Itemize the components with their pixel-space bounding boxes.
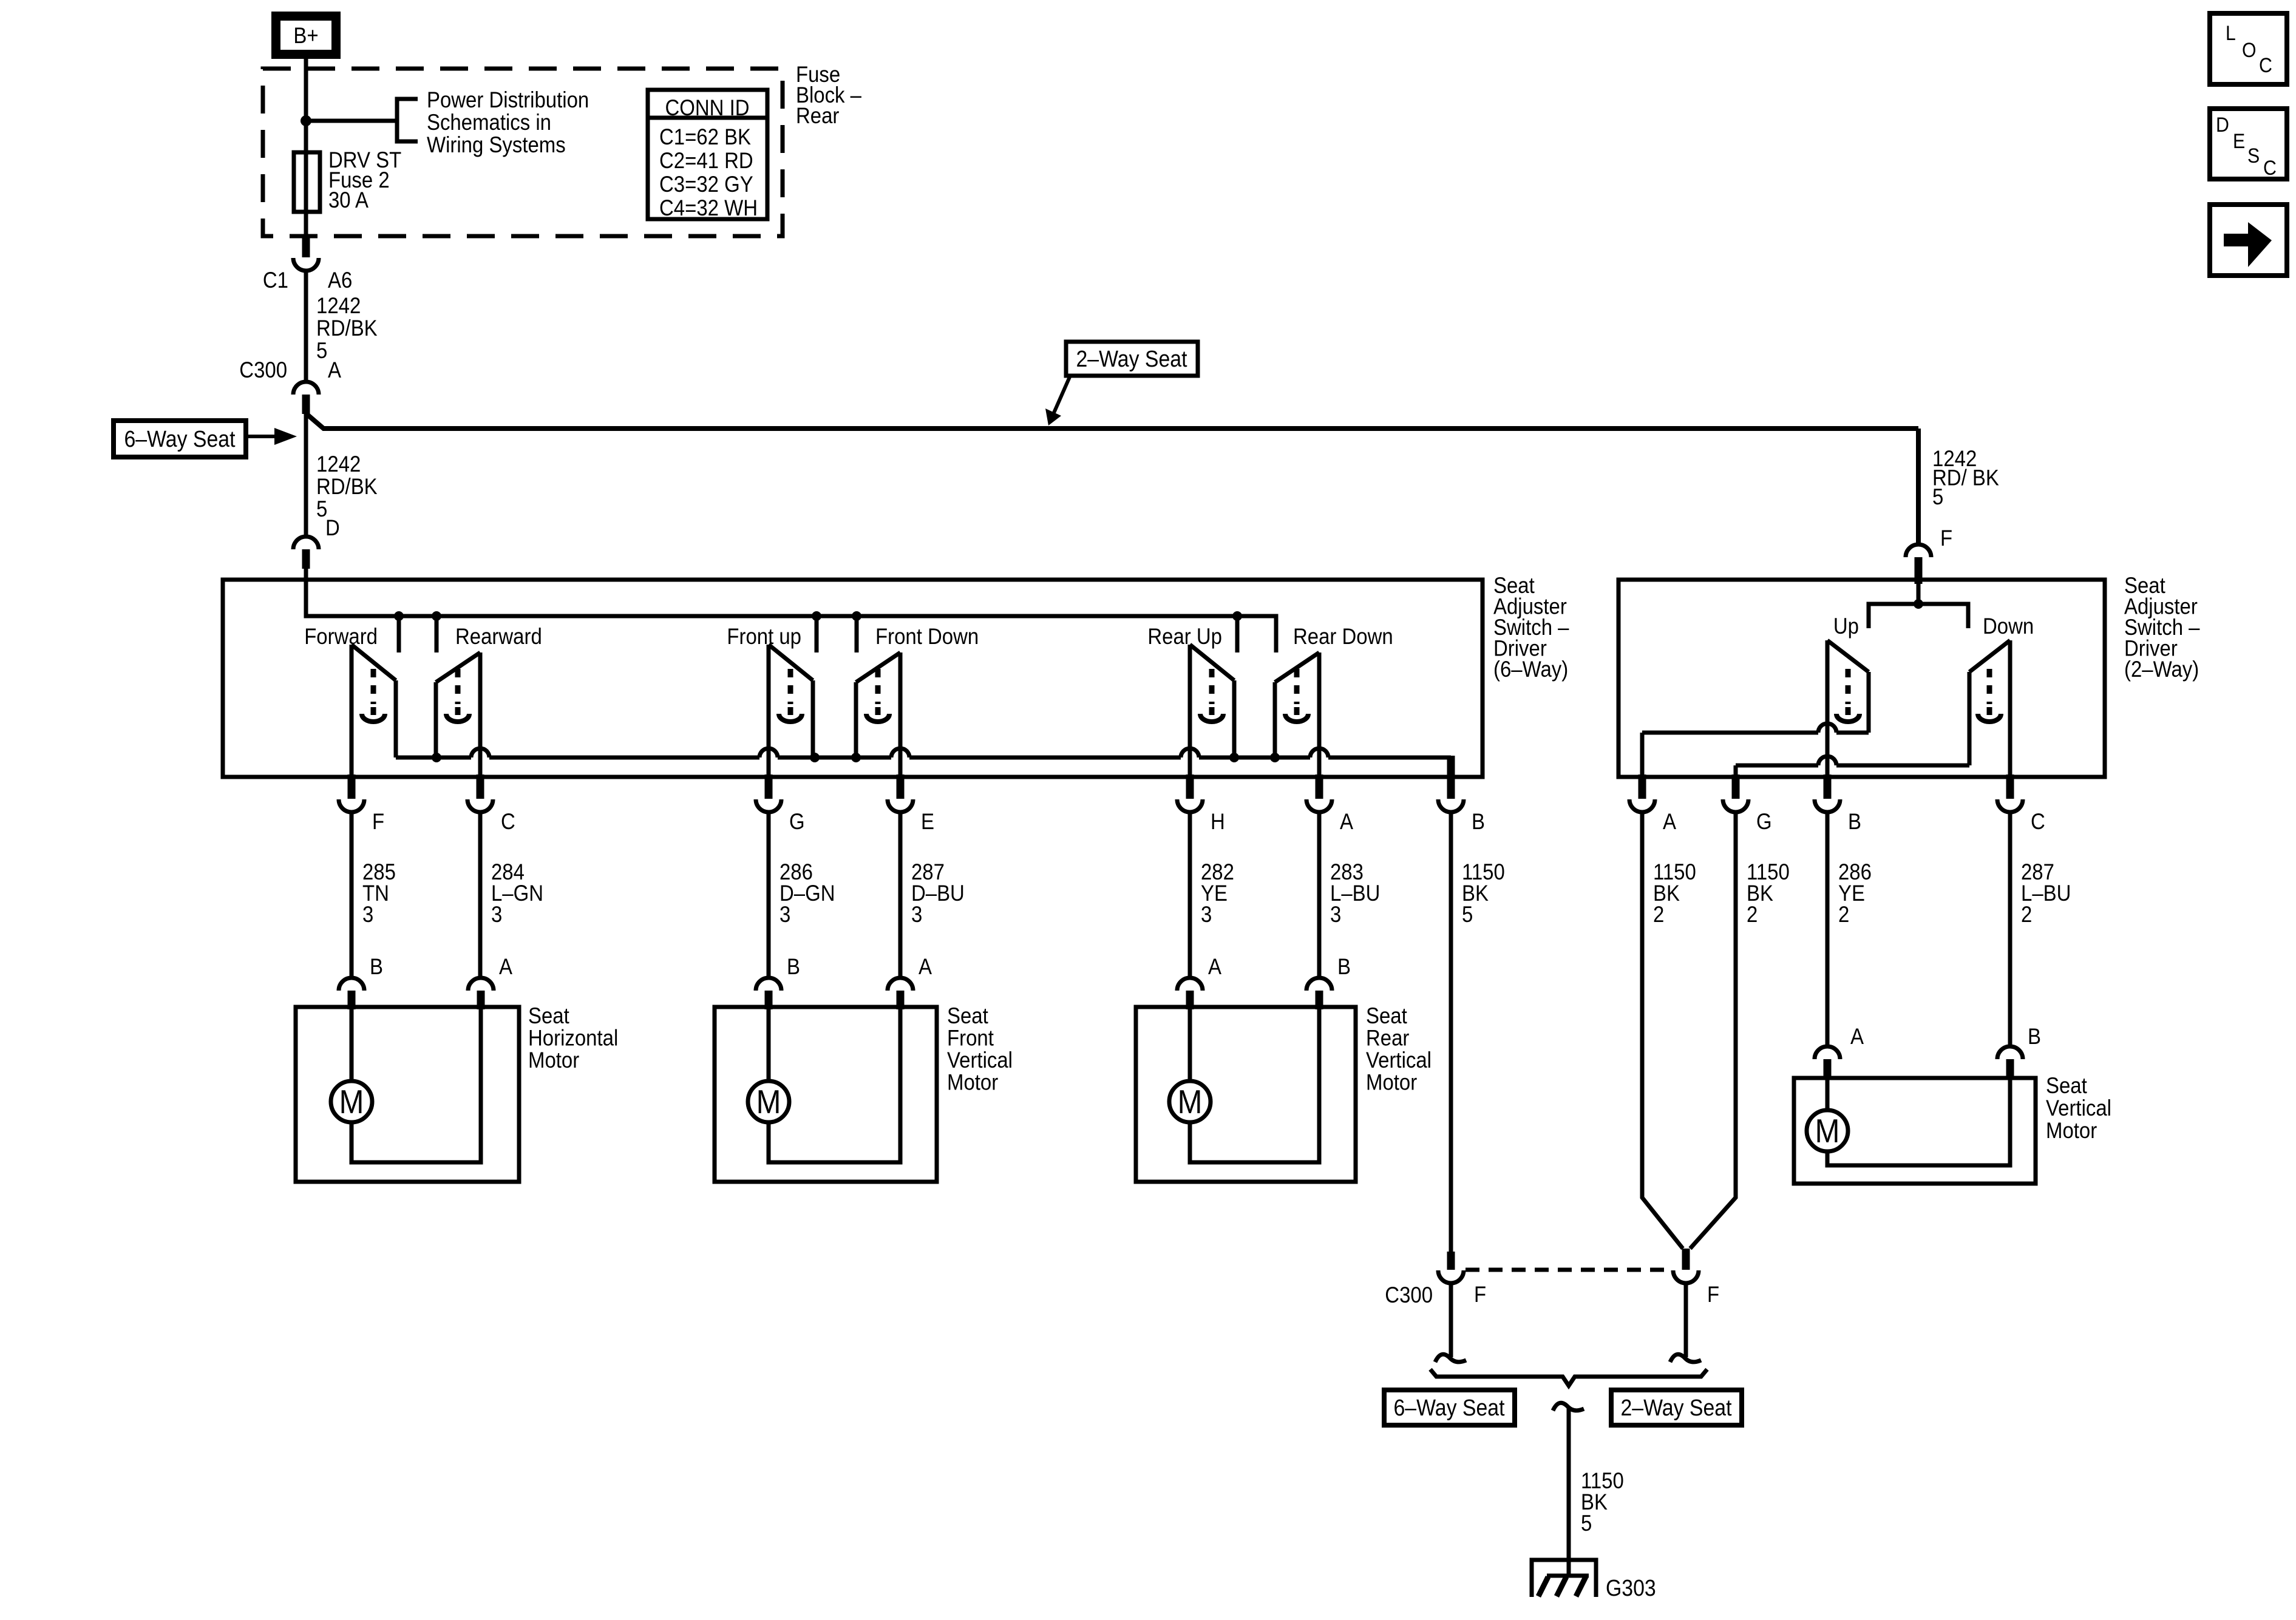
svg-text:3: 3	[1330, 902, 1341, 927]
svg-text:C1=62 BK: C1=62 BK	[659, 124, 751, 149]
svg-text:Vertical: Vertical	[2046, 1096, 2111, 1120]
svg-text:1242: 1242	[316, 293, 361, 318]
svg-text:3: 3	[911, 902, 922, 927]
svg-text:30 A: 30 A	[328, 188, 369, 212]
svg-text:6–Way Seat: 6–Way Seat	[124, 427, 236, 452]
svg-text:C: C	[2263, 157, 2277, 180]
svg-text:Motor: Motor	[528, 1048, 579, 1073]
svg-text:Motor: Motor	[1366, 1070, 1417, 1095]
svg-text:2: 2	[1747, 902, 1758, 927]
svg-text:F: F	[1940, 526, 1952, 551]
svg-text:A: A	[328, 358, 341, 382]
svg-text:B: B	[2028, 1024, 2041, 1049]
svg-text:Wiring Systems: Wiring Systems	[427, 132, 566, 157]
svg-text:C4=32 WH: C4=32 WH	[659, 195, 758, 220]
svg-text:C2=41 RD: C2=41 RD	[659, 148, 753, 173]
svg-text:D: D	[325, 515, 340, 540]
svg-text:Rearward: Rearward	[455, 624, 542, 649]
svg-text:Seat: Seat	[1366, 1003, 1407, 1028]
svg-text:Front Down: Front Down	[875, 624, 979, 649]
svg-text:3: 3	[362, 902, 373, 927]
svg-text:C3=32 GY: C3=32 GY	[659, 172, 753, 197]
svg-text:E: E	[2233, 130, 2245, 153]
svg-text:C300: C300	[1385, 1283, 1433, 1307]
svg-text:B: B	[1848, 809, 1861, 834]
svg-text:C: C	[2031, 809, 2045, 834]
svg-text:C: C	[2259, 54, 2272, 77]
svg-text:2: 2	[2021, 902, 2032, 927]
svg-text:2–Way Seat: 2–Way Seat	[1076, 347, 1187, 372]
svg-text:Rear: Rear	[1366, 1026, 1409, 1051]
svg-text:M: M	[756, 1083, 781, 1120]
svg-text:C: C	[501, 809, 515, 834]
svg-text:Down: Down	[1983, 614, 2034, 639]
svg-text:B: B	[1337, 954, 1351, 979]
svg-text:Forward: Forward	[304, 624, 378, 649]
svg-text:5: 5	[1462, 902, 1473, 927]
svg-text:Front up: Front up	[727, 624, 801, 649]
svg-text:3: 3	[491, 902, 502, 927]
svg-text:F: F	[1707, 1282, 1719, 1307]
svg-text:Rear: Rear	[796, 103, 839, 128]
svg-text:Horizontal: Horizontal	[528, 1026, 618, 1051]
svg-text:5: 5	[1932, 484, 1943, 509]
svg-text:Schematics in: Schematics in	[427, 110, 551, 135]
svg-text:1242: 1242	[316, 452, 361, 476]
svg-text:C1: C1	[263, 268, 288, 293]
svg-text:Seat: Seat	[528, 1003, 569, 1028]
svg-text:Seat: Seat	[2046, 1073, 2087, 1098]
svg-text:5: 5	[316, 338, 327, 363]
svg-text:Seat: Seat	[947, 1003, 988, 1028]
svg-text:6–Way Seat: 6–Way Seat	[1394, 1395, 1505, 1421]
svg-text:Rear Up: Rear Up	[1147, 624, 1222, 649]
svg-text:A: A	[1850, 1024, 1864, 1049]
svg-text:G303: G303	[1606, 1576, 1656, 1601]
svg-text:(2–Way): (2–Way)	[2124, 657, 2199, 682]
svg-text:B: B	[1472, 809, 1485, 834]
svg-text:M: M	[1815, 1112, 1840, 1150]
svg-text:5: 5	[1581, 1511, 1592, 1536]
svg-text:M: M	[339, 1083, 364, 1120]
svg-text:Rear Down: Rear Down	[1293, 624, 1393, 649]
svg-text:O: O	[2242, 39, 2257, 62]
svg-text:M: M	[1178, 1083, 1203, 1120]
svg-text:RD/BK: RD/BK	[316, 474, 378, 499]
svg-text:Power Distribution: Power Distribution	[427, 87, 589, 112]
svg-text:Front: Front	[947, 1026, 994, 1051]
svg-text:Motor: Motor	[2046, 1118, 2097, 1143]
svg-text:Vertical: Vertical	[1366, 1048, 1432, 1073]
svg-text:B: B	[370, 954, 383, 979]
svg-text:F: F	[372, 809, 384, 834]
svg-text:D: D	[2216, 114, 2229, 137]
svg-text:A6: A6	[328, 268, 352, 293]
svg-text:2–Way Seat: 2–Way Seat	[1621, 1395, 1732, 1421]
svg-text:G: G	[789, 809, 805, 834]
svg-text:G: G	[1756, 809, 1772, 834]
svg-text:L: L	[2226, 22, 2236, 45]
svg-text:A: A	[499, 954, 512, 979]
svg-text:CONN ID: CONN ID	[665, 95, 750, 120]
svg-text:3: 3	[779, 902, 790, 927]
svg-text:A: A	[1340, 809, 1353, 834]
svg-text:B+: B+	[293, 23, 318, 48]
svg-text:(6–Way): (6–Way)	[1493, 657, 1568, 682]
svg-text:RD/BK: RD/BK	[316, 316, 378, 341]
svg-text:S: S	[2247, 144, 2260, 168]
svg-text:B: B	[787, 954, 800, 979]
svg-text:Vertical: Vertical	[947, 1048, 1013, 1073]
svg-text:Motor: Motor	[947, 1070, 998, 1095]
svg-text:2: 2	[1838, 902, 1849, 927]
svg-text:Up: Up	[1833, 614, 1859, 639]
svg-text:E: E	[921, 809, 934, 834]
svg-text:A: A	[1663, 809, 1676, 834]
svg-text:C300: C300	[239, 358, 287, 382]
svg-text:A: A	[919, 954, 932, 979]
svg-text:3: 3	[1201, 902, 1212, 927]
svg-text:A: A	[1208, 954, 1221, 979]
svg-text:H: H	[1211, 809, 1225, 834]
svg-text:F: F	[1474, 1282, 1486, 1307]
svg-text:2: 2	[1653, 902, 1664, 927]
